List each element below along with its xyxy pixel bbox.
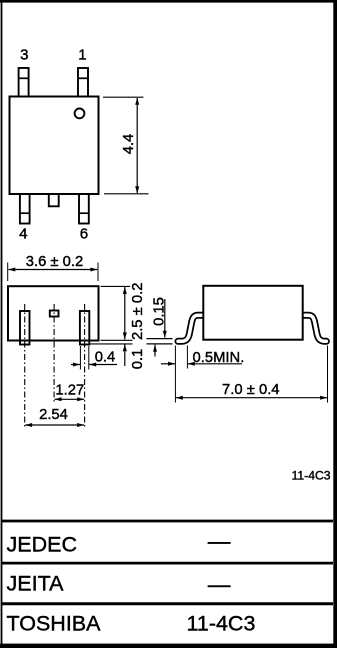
svg-text:0.15: 0.15 bbox=[151, 297, 167, 326]
svg-text:3: 3 bbox=[20, 47, 28, 64]
svg-text:7.0 ± 0.4: 7.0 ± 0.4 bbox=[222, 382, 279, 398]
svg-text:1: 1 bbox=[78, 47, 86, 64]
svg-text:JEDEC: JEDEC bbox=[7, 532, 77, 556]
svg-text:4: 4 bbox=[19, 226, 27, 243]
svg-text:JEITA: JEITA bbox=[7, 571, 65, 595]
svg-text:TOSHIBA: TOSHIBA bbox=[7, 611, 102, 635]
svg-text:2.54: 2.54 bbox=[39, 407, 68, 423]
svg-text:0.1: 0.1 bbox=[130, 349, 146, 370]
svg-text:0.4: 0.4 bbox=[95, 349, 116, 365]
svg-text:6: 6 bbox=[80, 226, 88, 243]
svg-text:2.5 ± 0.2: 2.5 ± 0.2 bbox=[130, 283, 146, 340]
svg-text:11-4C3: 11-4C3 bbox=[292, 469, 331, 483]
svg-text:0.5MIN.: 0.5MIN. bbox=[193, 350, 245, 366]
svg-text:3.6 ± 0.2: 3.6 ± 0.2 bbox=[26, 254, 83, 270]
svg-text:1.27: 1.27 bbox=[55, 383, 84, 399]
svg-text:11-4C3: 11-4C3 bbox=[187, 611, 256, 635]
svg-text:4.4: 4.4 bbox=[121, 134, 137, 155]
